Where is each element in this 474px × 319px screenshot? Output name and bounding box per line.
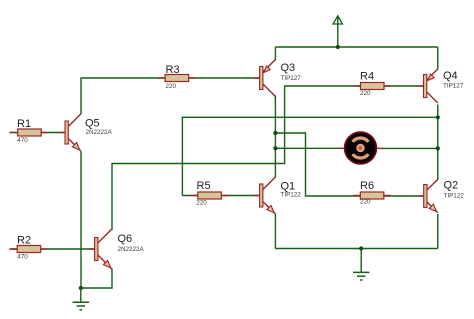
svg-text:Q4: Q4 <box>443 70 458 82</box>
wire: Q5 emitter down to ground node <box>80 152 82 289</box>
svg-text:TIP127: TIP127 <box>443 83 464 90</box>
junction: power to rail <box>336 45 340 49</box>
wire: Q4 emitter to rail <box>437 47 439 70</box>
junction: y117 at Q4 collector <box>436 115 440 119</box>
transistor Q6 (2N2222A) <box>89 229 112 269</box>
ground (left) <box>73 302 89 310</box>
wire: R1 to Q5 base <box>10 132 66 134</box>
wire: R5 to Q1 base <box>182 195 259 197</box>
transistor Q5 (2N2222A) <box>59 114 81 151</box>
svg-text:R4: R4 <box>360 70 374 82</box>
svg-text:R6: R6 <box>360 180 374 192</box>
wire: Q4 collector / Q2 collector vertical <box>437 105 439 180</box>
wire: Q3 emitter to rail <box>274 47 276 61</box>
svg-text:R2: R2 <box>17 234 31 246</box>
transistor Q3 (TIP127) <box>254 60 276 97</box>
wire: Q5 collector / R3 to Q3 base <box>81 78 260 114</box>
power symbol +V (up arrow) <box>333 16 342 47</box>
wire: node Q4.C - long horizontal to R5 node <box>182 117 437 195</box>
resistor R4 <box>354 83 392 90</box>
wire: Q6 emitter to ground node <box>81 269 112 289</box>
motor M1 <box>338 132 383 164</box>
wire: R2 to Q6 base <box>11 248 95 250</box>
svg-text:R3: R3 <box>166 64 180 76</box>
wire: Q6 collector to R4 / Q4 base <box>112 86 424 230</box>
junction: R6 node on Q3 collector <box>273 131 277 135</box>
svg-text:R5: R5 <box>197 180 211 192</box>
resistor R1 <box>10 129 48 136</box>
svg-text:220: 220 <box>360 90 371 97</box>
svg-text:470: 470 <box>17 137 28 144</box>
svg-text:Q3: Q3 <box>281 62 296 74</box>
wire: bottom ground rail <box>275 248 437 250</box>
svg-text:2N2222A: 2N2222A <box>86 129 113 136</box>
junction: emitters to ground <box>79 286 83 290</box>
wire: motor left to Q1/Q3 collectors <box>275 147 340 149</box>
resistor R5 <box>191 192 229 199</box>
transistor Q1 (TIP122) <box>254 177 276 214</box>
svg-text:TIP122: TIP122 <box>281 191 302 198</box>
resistor R2 <box>9 246 47 253</box>
resistor R3 <box>158 75 196 82</box>
svg-text:Q6: Q6 <box>118 233 133 245</box>
junction: ground rail <box>359 246 363 250</box>
wire: stub to ground (left) <box>80 288 82 302</box>
svg-text:220: 220 <box>196 200 207 207</box>
svg-text:Q2: Q2 <box>444 179 459 191</box>
transistor Q4 (TIP127) <box>418 69 438 103</box>
svg-text:TIP122: TIP122 <box>444 192 465 199</box>
wire: motor right to Q2/Q4 collectors <box>381 147 438 149</box>
junction: motor right node <box>436 146 440 150</box>
wire: Q1 emitter down <box>274 214 276 249</box>
wire: +V top rail <box>275 46 437 48</box>
wire: Q2 emitter down <box>437 214 439 249</box>
svg-text:Q5: Q5 <box>85 117 100 129</box>
transistor Q2 (TIP122) <box>418 179 438 213</box>
resistor R6 <box>353 192 391 199</box>
wire: stub to ground (bottom) <box>360 249 362 273</box>
ground (bottom) <box>353 272 369 280</box>
svg-text:220: 220 <box>166 83 177 90</box>
svg-text:R1: R1 <box>17 118 31 130</box>
wire: Q3 collector / Q1 collector vertical <box>274 96 276 178</box>
svg-text:220: 220 <box>360 199 371 206</box>
junction: motor left node <box>273 146 277 150</box>
wire: node Q3.C to R6 / Q2 base <box>275 133 423 196</box>
svg-text:2N2222A: 2N2222A <box>118 246 145 253</box>
svg-text:TIP127: TIP127 <box>281 75 302 82</box>
svg-text:470: 470 <box>17 254 28 261</box>
